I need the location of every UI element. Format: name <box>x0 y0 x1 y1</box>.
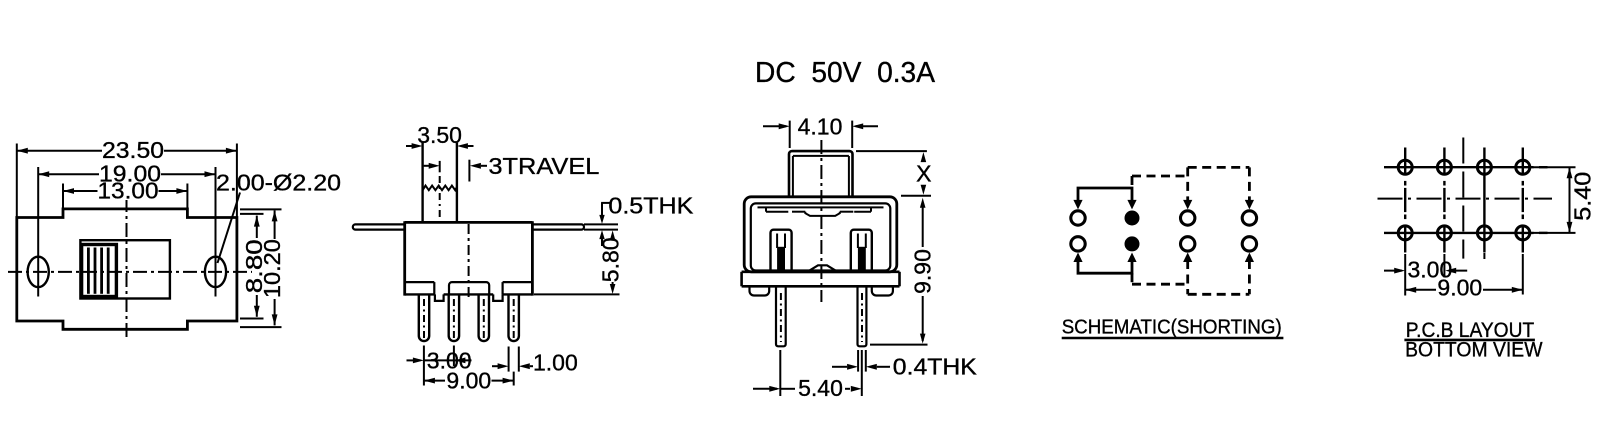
dim 10.20 extension lines <box>240 208 282 210</box>
svg-text:3TRAVEL: 3TRAVEL <box>488 153 599 179</box>
dim 3.00 extension line at pin2 <box>453 346 455 367</box>
svg-text:3.50: 3.50 <box>417 122 462 148</box>
pcb: extension below pads col2 <box>1443 254 1445 278</box>
front view: left foot <box>750 286 770 295</box>
dim 4.10 extension lines <box>789 121 791 148</box>
side view: pins <box>419 294 429 341</box>
top view: horizontal center line <box>8 271 252 273</box>
svg-text:BOTTOM VIEW: BOTTOM VIEW <box>1405 338 1543 361</box>
side view: body right edge <box>531 221 534 295</box>
dim 5.40 line and arrows <box>753 388 777 390</box>
front view: right foot <box>872 286 893 295</box>
side view: bottom inner line segments <box>405 281 435 283</box>
schematic: solid pole link top (pin1-pin2) <box>1078 188 1132 203</box>
svg-text:10.20: 10.20 <box>259 239 285 298</box>
front view: knob outline <box>789 151 853 197</box>
pcb: horizontal center line <box>1378 198 1553 200</box>
schematic: terminal circles bottom row <box>1071 237 1085 251</box>
front view: right pin <box>858 286 867 346</box>
top view: slider recess rectangle <box>80 240 169 298</box>
schematic: dashed link bottom (pin3-pin4) <box>1188 293 1250 296</box>
schematic: dashed link bottom (pin2-pin3) <box>1131 273 1134 284</box>
svg-text:1.00: 1.00 <box>533 349 578 375</box>
leader line to right mounting hole <box>218 193 241 264</box>
dim 9.00 right extension at pin4 center <box>513 372 515 386</box>
schematic: dashed link top (pin3-pin4) <box>1188 166 1250 169</box>
svg-text:13.00: 13.00 <box>98 178 159 204</box>
dim 8.80 line and arrows <box>256 216 258 238</box>
dim 5.40 extension lines at pin centers <box>779 350 781 396</box>
label 0.4THK extension lines at pin edges <box>857 350 859 372</box>
dim 23.50 text <box>102 141 164 160</box>
top view: slider knob with hatch <box>82 245 117 297</box>
dim 8.80 extension lines <box>240 213 264 215</box>
knob top extension line for X dim <box>856 150 927 152</box>
pcb: extension below pads col3 short dash <box>1483 253 1485 259</box>
svg-text:2.00-Ø2.20: 2.00-Ø2.20 <box>216 170 341 196</box>
top view: left mounting hole <box>28 257 49 287</box>
pcb: vertical center line <box>1462 138 1464 259</box>
front view: right contact post <box>851 230 872 272</box>
dim 3.50 line and outside arrows <box>406 145 419 147</box>
schematic: dashed link top (pin2-pin3) <box>1131 176 1134 187</box>
pcb: row 2 line through pads <box>1384 232 1534 234</box>
pcb title underline <box>1404 339 1535 342</box>
dim 9.90 line and arrows <box>920 198 926 208</box>
dim 1.00 extension lines at pin4 edges <box>508 347 510 372</box>
side view: knob right edge <box>456 143 458 223</box>
front view: left contact post <box>771 230 792 272</box>
top view: switch body outline with mounting ears <box>17 209 237 329</box>
dim X arrows <box>921 152 927 162</box>
svg-text:0.5THK: 0.5THK <box>608 193 694 219</box>
svg-text:5.80: 5.80 <box>598 237 624 282</box>
svg-text:4.10: 4.10 <box>798 113 843 139</box>
schematic: arrows into top terminals <box>1073 200 1082 210</box>
dim 3.00 line with outside arrows <box>407 359 421 361</box>
front view: top band end steps <box>765 207 767 211</box>
top view: left hole center line / 19.00 extension <box>37 167 39 297</box>
schematic: terminal circles top row <box>1071 211 1085 225</box>
side view: body center line <box>468 224 470 300</box>
label 0.5THK bracket and arrows <box>601 202 610 204</box>
side view: body top edge <box>405 221 533 224</box>
front view: body outer outline <box>744 197 897 272</box>
body top extension line for X dim <box>901 195 931 197</box>
svg-text:9.00: 9.00 <box>1437 275 1482 301</box>
dim 10.20 line and arrows <box>274 210 276 239</box>
side view: bottom edge with solder tab notches <box>405 293 435 295</box>
side view: knob center line with travel tick <box>439 161 441 172</box>
svg-text:0.4THK: 0.4THK <box>893 353 978 379</box>
pcb: center-line breaks on columns 1 2 4 <box>1403 175 1407 181</box>
label 3TRAVEL arrow <box>470 163 481 169</box>
svg-text:5.40: 5.40 <box>798 375 843 401</box>
dim 23.50 extension lines <box>16 144 18 218</box>
front view: base plate <box>742 270 900 273</box>
side view: knob left edge <box>421 143 423 223</box>
top view: vertical center line <box>126 198 128 340</box>
dim 19.00 line and arrows <box>38 173 215 175</box>
front view: center line <box>820 140 822 302</box>
dim 23.50 line and arrows <box>17 150 237 152</box>
schematic: arrows into bottom terminals <box>1073 253 1082 263</box>
front view: center contact hump <box>807 265 837 272</box>
label 3TRAVEL tick <box>468 160 470 182</box>
svg-text:23.50: 23.50 <box>102 137 164 163</box>
side view: knob break zigzag <box>423 186 457 191</box>
pcb: column verticals through pads <box>1404 148 1406 253</box>
travel arrow pointing to knob center <box>424 165 431 167</box>
top view: right hole center line / 19.00 extension <box>215 167 217 297</box>
schematic title underline <box>1062 337 1284 340</box>
side view: body bottom extension line for 5.80 <box>534 293 620 295</box>
dim 4.10 outside arrows <box>763 125 786 127</box>
side view: body left edge <box>403 221 406 295</box>
dim 5.40 extension lines (pcb) <box>1533 166 1576 168</box>
side view: foot verticals <box>433 282 435 294</box>
pcb: extension below pads col1 <box>1404 254 1406 296</box>
label 0.4THK arrows <box>832 366 847 368</box>
front view: left pin <box>776 286 786 346</box>
side view: right tab extension lines <box>584 223 618 225</box>
pcb: extension below pads col4 <box>1522 254 1524 295</box>
front view: inner second outline top <box>758 206 884 208</box>
front view: knob inner lines <box>792 156 794 197</box>
schematic: solid pole link bottom (pin1-pin2) <box>1078 259 1132 273</box>
dim 3.00 arrows (pcb) <box>1384 270 1402 272</box>
top view: right mounting hole <box>205 257 226 287</box>
dim 13.00 text <box>98 184 159 201</box>
svg-text:DC 50V 0.3A: DC 50V 0.3A <box>755 57 936 89</box>
svg-text:SCHEMATIC(SHORTING): SCHEMATIC(SHORTING) <box>1062 315 1282 338</box>
dim 3.00 extension line at pin1 <box>423 346 425 386</box>
front view: top band bottom edge segments <box>766 211 788 213</box>
pcb: pads (8 holes) <box>1398 160 1412 174</box>
dim 9.00 line and arrows <box>424 380 445 382</box>
front view: body inner outline <box>751 203 891 270</box>
pcb: row 1 line through pads <box>1384 166 1534 168</box>
front view: top band center well <box>805 212 840 216</box>
pin bottom extension line for 9.90 <box>870 344 928 346</box>
svg-text:9.00: 9.00 <box>446 368 491 394</box>
dim 1.00 arrows <box>492 365 499 367</box>
dim 5.80 line and arrows <box>610 230 616 240</box>
dim 5.40 line and arrows (pcb) <box>1569 167 1571 233</box>
dim 19.00 text <box>99 166 161 184</box>
dim 9.00 line and arrows (pcb) <box>1405 289 1436 291</box>
svg-text:X: X <box>916 161 931 187</box>
dim 13.00 extension lines <box>62 184 64 209</box>
dim 13.00 line and arrows <box>63 190 187 192</box>
svg-text:9.90: 9.90 <box>910 249 936 294</box>
side view: right metal tab <box>532 224 584 229</box>
side view: left metal tab 0.5 thick <box>353 224 405 229</box>
svg-text:5.40: 5.40 <box>1570 172 1596 221</box>
